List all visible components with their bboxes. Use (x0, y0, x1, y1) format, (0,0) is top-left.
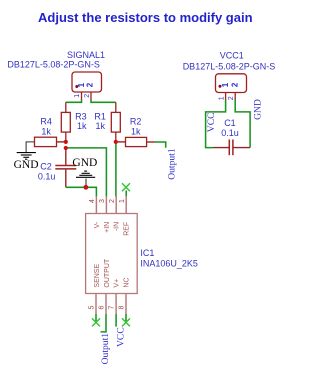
svg-text:2: 2 (231, 82, 240, 87)
svg-text:0.1u: 0.1u (221, 128, 239, 138)
resistor R3 body (61, 112, 70, 132)
ground symbol GND1 (17, 153, 36, 160)
resistor R3 stub bottom (65, 132, 67, 142)
IC1 pin 5 no-connect stem (95, 314, 97, 321)
svg-text:VCC: VCC (206, 112, 217, 132)
svg-text:C2: C2 (40, 161, 52, 171)
connector SIGNAL1 pin stub 1 (81, 93, 83, 101)
wire VCC1 pin1 down-left (VCC net) (206, 100, 226, 148)
svg-text:1: 1 (119, 199, 126, 203)
capacitor C2 plates (55, 165, 76, 167)
wire VCC1 pin2 down-right (GND net) (235, 100, 250, 148)
svg-text:2: 2 (86, 82, 95, 87)
connector SIGNAL1 pin1 dot (75, 85, 78, 88)
no-connect X on pin 8 (122, 318, 130, 326)
svg-text:Output1: Output1 (100, 333, 111, 365)
IC1 pin 1 no-connect stem (125, 191, 127, 197)
svg-text:3: 3 (99, 199, 106, 203)
wire R4 left to ground (black) (26, 142, 34, 152)
svg-text:C1: C1 (224, 118, 236, 128)
svg-text:1: 1 (74, 94, 81, 98)
capacitor C1 wire right (233, 147, 250, 149)
svg-text:NC: NC (124, 277, 131, 287)
resistor R4 body (35, 137, 57, 146)
svg-text:IC1: IC1 (140, 248, 154, 258)
wire R1 node to R2 (116, 141, 126, 143)
IC1 pin 8 stub (125, 294, 127, 315)
svg-text:4: 4 (89, 199, 96, 203)
svg-text:V-: V- (94, 221, 101, 228)
wire IC1 pin 7 VCC (115, 314, 117, 327)
IC1 pin 3 stub (105, 196, 107, 214)
svg-text:-IN: -IN (114, 222, 121, 231)
svg-text:INA106U_2K5: INA106U_2K5 (140, 258, 198, 268)
wire C2 to IC pin4 (green) (66, 187, 97, 196)
connector SIGNAL1 pin stub 2 (90, 93, 92, 101)
IC1 pin 4 stub (95, 196, 97, 214)
svg-text:GND: GND (252, 99, 263, 120)
no-connect X on pin 1 (122, 183, 130, 191)
svg-text:REF: REF (124, 222, 131, 236)
connector VCC1 body (216, 74, 247, 93)
connector SIGNAL1 body (72, 72, 102, 92)
svg-text:Output1: Output1 (166, 148, 177, 180)
svg-text:SIGNAL1: SIGNAL1 (67, 50, 105, 60)
wire signal pin1 to R3 (66, 100, 82, 103)
svg-text:1: 1 (221, 82, 230, 87)
wire R4 right to node (57, 141, 66, 143)
wire R2 right (red part) (147, 141, 155, 143)
svg-text:DB127L-5.08-2P-GN-S: DB127L-5.08-2P-GN-S (7, 60, 100, 70)
resistor R2 body (126, 137, 147, 146)
svg-text:2: 2 (228, 96, 235, 100)
wire R1 node to IC pin2 (115, 142, 117, 197)
IC1 pin 7 stub (115, 294, 117, 315)
resistor R1 stub bottom (115, 132, 117, 142)
svg-text:0.1u: 0.1u (38, 171, 56, 181)
svg-text:5: 5 (89, 306, 96, 310)
svg-text:1k: 1k (131, 127, 141, 137)
wire signal pin2 to R1 (91, 100, 116, 103)
wire node to IC pin3 (66, 148, 107, 197)
svg-text:1: 1 (218, 96, 225, 100)
svg-text:DB127L-5.08-2P-GN-S: DB127L-5.08-2P-GN-S (183, 62, 276, 72)
op-amp IC1 body (86, 214, 138, 294)
wire R2 right to Output1 (green) (155, 142, 166, 148)
resistor R1 stub top (115, 102, 117, 112)
capacitor C2 wire top (65, 148, 67, 165)
node junction R3/C2 tap (64, 146, 68, 150)
resistor R1 body (111, 112, 120, 132)
IC1 pin 5 stub (95, 294, 97, 315)
IC1 pin 8 no-connect stem (125, 314, 127, 321)
ground symbol GND2 (flipped) (76, 171, 95, 185)
connector VCC1 pin stub 1 (225, 93, 227, 101)
node junction ground/C2 wire (84, 185, 89, 190)
connector VCC1 pin1 dot (219, 85, 222, 88)
svg-text:+IN: +IN (104, 222, 111, 233)
svg-text:V+: V+ (114, 279, 121, 288)
node junction R3/R4 (64, 140, 68, 144)
node junction R1/R2 (114, 140, 118, 144)
svg-text:2: 2 (84, 94, 91, 98)
svg-text:GND: GND (14, 159, 39, 171)
svg-text:R4: R4 (40, 117, 52, 127)
IC1 pin 6 stub (105, 294, 107, 315)
svg-text:VCC: VCC (116, 327, 127, 347)
resistor R3 stub top (65, 102, 67, 112)
svg-text:8: 8 (119, 306, 126, 310)
capacitor C1 wire left (213, 147, 229, 149)
IC1 pin 1 stub (125, 196, 127, 214)
svg-text:2: 2 (109, 199, 116, 203)
svg-text:6: 6 (99, 306, 106, 310)
svg-text:Adjust the resistors to modify: Adjust the resistors to modify gain (38, 10, 253, 25)
svg-text:1k: 1k (95, 121, 105, 131)
wire IC1 pin 6 Output1 (101, 314, 107, 332)
svg-text:OUTPUT: OUTPUT (104, 258, 111, 288)
svg-text:GND: GND (72, 157, 97, 169)
svg-text:7: 7 (109, 306, 116, 310)
svg-text:1k: 1k (41, 127, 51, 137)
svg-text:VCC1: VCC1 (220, 51, 244, 61)
svg-text:1k: 1k (77, 121, 87, 131)
capacitor C2 wire bottom (65, 170, 67, 188)
svg-text:R2: R2 (130, 117, 142, 127)
no-connect X on pin 5 (92, 318, 100, 326)
connector VCC1 pin stub 2 (234, 93, 236, 101)
capacitor C1 plates (228, 140, 230, 156)
IC1 pin 2 stub (115, 196, 117, 214)
svg-text:SENSE: SENSE (94, 264, 101, 288)
